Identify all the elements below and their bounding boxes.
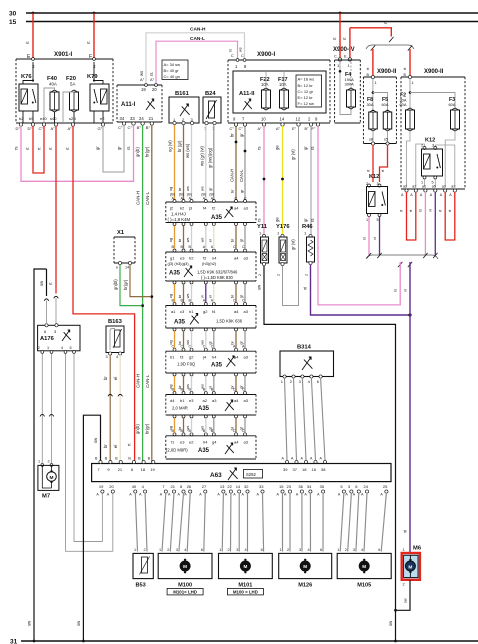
svg-text:e3: e3 [180, 256, 185, 261]
svg-text:a3: a3 [244, 355, 249, 360]
svg-text:ws: ws [200, 238, 204, 243]
svg-text:2: 2 [144, 548, 146, 552]
svg-text:E°: E° [292, 127, 297, 131]
svg-text:CAN-L: CAN-L [145, 374, 150, 388]
svg-text:10A: 10A [279, 82, 287, 87]
svg-text:5A: 5A [70, 82, 75, 87]
svg-text:A= 34 sw: A= 34 sw [164, 62, 181, 67]
svg-text:Y176: Y176 [276, 224, 290, 230]
svg-text:br: br [103, 376, 108, 380]
svg-text:a4: a4 [234, 256, 239, 261]
svg-text:19: 19 [150, 467, 155, 472]
svg-text:M100: M100 [178, 582, 192, 588]
svg-text:21: 21 [149, 116, 154, 121]
svg-text:X1: X1 [117, 230, 125, 236]
svg-text:2,0 M4R: 2,0 M4R [172, 406, 188, 411]
svg-text:1,5D K9K 632/6/7/846: 1,5D K9K 632/6/7/846 [197, 270, 238, 275]
svg-text:CAN-H: CAN-H [136, 191, 141, 205]
svg-text:A°: A° [51, 126, 56, 131]
svg-text:A35: A35 [174, 320, 186, 326]
svg-text:CAN-H: CAN-H [230, 169, 235, 182]
svg-text:34: 34 [120, 116, 125, 121]
svg-text:e40: e40 [40, 116, 47, 121]
svg-text:C= 40 gn: C= 40 gn [164, 74, 180, 79]
svg-text:18: 18 [302, 467, 307, 472]
svg-text:4: 4 [61, 346, 63, 350]
svg-text:b2: b2 [19, 116, 24, 121]
svg-text:35: 35 [320, 484, 325, 489]
svg-text:CAN-L: CAN-L [239, 169, 244, 182]
svg-text:G°: G° [98, 126, 103, 131]
svg-text:32: 32 [244, 484, 249, 489]
svg-text:C: C [242, 299, 245, 303]
svg-text:a3: a3 [244, 440, 249, 445]
svg-text:rs: rs [310, 219, 315, 223]
svg-text:40A: 40A [49, 82, 57, 87]
svg-text:D°: D° [28, 126, 33, 131]
svg-text:B53: B53 [136, 583, 146, 589]
svg-text:el: el [208, 239, 212, 242]
svg-text:C°: C° [230, 127, 235, 131]
svg-text:br: br [103, 444, 108, 448]
svg-text:2: 2 [305, 274, 309, 276]
svg-text:e: e [116, 266, 118, 270]
svg-text:rs: rs [126, 147, 131, 151]
svg-text:2: 2 [167, 548, 169, 552]
svg-text:M: M [303, 564, 307, 569]
svg-text:K76: K76 [21, 74, 32, 80]
svg-text:CAN-L: CAN-L [190, 36, 205, 42]
svg-text:C°: C° [128, 125, 133, 130]
svg-text:el: el [113, 445, 118, 448]
svg-text:B314: B314 [297, 345, 312, 351]
svg-text:M: M [243, 564, 247, 569]
svg-text:2: 2 [258, 274, 262, 276]
svg-text:C°: C° [239, 127, 244, 131]
svg-text:30A: 30A [367, 102, 374, 107]
svg-text:ws: ws [200, 340, 204, 345]
svg-text:h2: h2 [189, 256, 194, 261]
svg-text:3: 3 [236, 548, 238, 552]
svg-text:b5: b5 [29, 116, 34, 121]
svg-text:M: M [362, 564, 366, 569]
svg-text:1: 1 [403, 548, 405, 552]
svg-text:B24: B24 [205, 91, 216, 97]
svg-text:gn(b): gn(b) [135, 147, 140, 157]
svg-text:g2: g2 [203, 309, 208, 314]
svg-text:rs: rs [394, 289, 398, 292]
svg-text:B= 12 br: B= 12 br [298, 83, 314, 88]
svg-text:2: 2 [345, 548, 347, 552]
svg-text:60A: 60A [400, 102, 407, 107]
svg-text:og: og [169, 340, 173, 344]
svg-text:h1: h1 [189, 309, 194, 314]
svg-text:s5: s5 [384, 138, 388, 142]
svg-text:ws: ws [186, 294, 190, 299]
svg-text:M7: M7 [42, 494, 50, 500]
svg-text:M: M [183, 564, 187, 569]
svg-text:3: 3 [176, 548, 178, 552]
svg-text:3: 3 [432, 144, 434, 148]
svg-text:2: 2 [403, 583, 405, 587]
svg-text:A°: A° [258, 127, 263, 131]
svg-text:sw: sw [404, 598, 408, 603]
svg-text:18: 18 [141, 467, 146, 472]
svg-text:ws: ws [186, 426, 190, 431]
svg-text:ws: ws [139, 71, 144, 76]
svg-text:X900-II: X900-II [377, 69, 397, 75]
svg-text:(j3) (h3)(g3): (j3) (h3)(g3) [168, 261, 190, 266]
svg-text:10A: 10A [261, 82, 269, 87]
svg-text:C°: C° [118, 125, 123, 130]
svg-text:a3: a3 [212, 398, 217, 403]
svg-text:rs: rs [149, 73, 154, 77]
svg-text:6: 6 [320, 548, 322, 552]
svg-text:16: 16 [312, 467, 317, 472]
svg-text:K79: K79 [87, 74, 98, 80]
svg-text:M100 = LHD: M100 = LHD [233, 590, 258, 595]
svg-text:21: 21 [118, 467, 123, 472]
svg-text:31: 31 [10, 639, 18, 644]
svg-text:6: 6 [378, 548, 380, 552]
svg-text:20: 20 [152, 87, 157, 92]
svg-text:5: 5 [70, 346, 72, 350]
svg-text:a3: a3 [451, 185, 455, 189]
svg-text:g2: g2 [189, 355, 194, 360]
svg-text:23: 23 [287, 484, 292, 489]
svg-text:a3: a3 [442, 185, 446, 189]
svg-text:rs: rs [363, 237, 367, 240]
svg-text:39: 39 [283, 467, 288, 472]
svg-text:ws: ws [186, 340, 190, 345]
svg-text:X900-II: X900-II [424, 69, 444, 75]
svg-text:14: 14 [236, 484, 241, 489]
svg-text:A35: A35 [211, 363, 223, 369]
svg-text:K12: K12 [369, 174, 379, 180]
svg-text:A35: A35 [169, 271, 181, 277]
svg-text:26: 26 [187, 484, 192, 489]
svg-text:ge: ge [275, 145, 280, 150]
svg-text:2: 2 [277, 274, 281, 276]
svg-text:s2D: s2D [69, 116, 76, 121]
svg-text:S292: S292 [246, 472, 256, 477]
svg-text:e2: e2 [100, 116, 105, 121]
svg-text:vi: vi [403, 530, 408, 533]
svg-text:X900-IV: X900-IV [333, 47, 355, 53]
svg-text:1: 1 [337, 548, 339, 552]
svg-text:a4: a4 [234, 309, 239, 314]
svg-text:M101: M101 [238, 582, 252, 588]
svg-text:A°: A° [150, 77, 155, 82]
svg-text:h4: h4 [203, 440, 208, 445]
svg-text:22: 22 [227, 484, 232, 489]
svg-text:og: og [169, 187, 173, 191]
svg-text:2: 2 [32, 64, 35, 69]
svg-text:15: 15 [9, 19, 17, 26]
svg-text:a4: a4 [234, 440, 239, 445]
svg-text:A176: A176 [40, 336, 55, 342]
svg-text:M: M [408, 564, 412, 570]
svg-text:A°: A° [140, 77, 145, 82]
svg-text:rs: rs [14, 147, 19, 151]
svg-text:gr: gr [303, 218, 308, 222]
svg-text:27: 27 [202, 484, 207, 489]
svg-text:gr (ws)(og): gr (ws)(og) [208, 147, 213, 168]
svg-text:ge: ge [275, 217, 280, 222]
svg-text:B°: B° [137, 125, 142, 130]
svg-text:E= 12 br: E= 12 br [298, 95, 314, 100]
svg-text:C: C [233, 245, 236, 249]
svg-text:3: 3 [299, 548, 301, 552]
svg-text:(h3)(h2): (h3)(h2) [202, 261, 217, 266]
svg-text:33: 33 [130, 116, 135, 121]
svg-text:4: 4 [245, 548, 247, 552]
svg-text:gr: gr [303, 146, 308, 150]
svg-text:b1: b1 [170, 355, 175, 360]
svg-text:X900-I: X900-I [257, 51, 276, 58]
svg-text:gn(b): gn(b) [135, 424, 140, 434]
svg-text:X901-I: X901-I [54, 51, 73, 58]
svg-text:a3: a3 [244, 309, 249, 314]
svg-text:e3: e3 [180, 440, 185, 445]
svg-text:M6: M6 [413, 546, 422, 552]
svg-text:vi: vi [429, 209, 433, 212]
svg-text:br(gr): br(gr) [123, 279, 128, 290]
svg-text:n4: n4 [212, 256, 217, 261]
svg-text:60A: 60A [449, 102, 456, 107]
svg-text:1: 1 [47, 346, 49, 350]
svg-text:5: 5 [377, 218, 379, 222]
svg-text:300A: 300A [345, 82, 355, 87]
svg-text:B= 40 gr: B= 40 gr [164, 68, 180, 73]
svg-text:12: 12 [296, 117, 301, 122]
svg-text:1,4 H4J: 1,4 H4J [171, 212, 186, 217]
svg-text:C: C [231, 54, 234, 58]
svg-text:ws: ws [200, 384, 204, 389]
svg-text:CAN-L: CAN-L [145, 191, 150, 205]
svg-text:a1: a1 [171, 309, 176, 314]
svg-text:ws: ws [186, 186, 190, 191]
svg-text:B°: B° [146, 125, 151, 130]
svg-text:a3: a3 [244, 256, 249, 261]
svg-text:b1: b1 [180, 398, 185, 403]
svg-text:ws (ws): ws (ws) [185, 143, 190, 158]
svg-text:A11-II: A11-II [239, 91, 255, 97]
svg-text:vi: vi [200, 295, 204, 298]
svg-text:R46: R46 [302, 224, 313, 230]
svg-text:19: 19 [99, 484, 104, 489]
svg-text:gr (vi): gr (vi) [291, 239, 296, 250]
svg-text:A35: A35 [198, 406, 210, 412]
svg-text:a2: a2 [403, 185, 407, 189]
svg-text:15: 15 [279, 484, 284, 489]
svg-text:1: 1 [219, 548, 221, 552]
svg-text:s40: s40 [50, 116, 57, 121]
svg-text:60A: 60A [382, 102, 389, 107]
svg-text:ws: ws [200, 186, 204, 191]
svg-text:6: 6 [201, 548, 203, 552]
svg-text:1: 1 [280, 548, 282, 552]
svg-text:1: 1 [159, 548, 161, 552]
svg-text:rs: rs [257, 147, 262, 151]
svg-text:M105: M105 [357, 582, 371, 588]
svg-text:24: 24 [364, 484, 369, 489]
svg-text:a4: a4 [234, 398, 239, 403]
svg-text:4: 4 [308, 548, 310, 552]
svg-text:24: 24 [139, 116, 144, 121]
svg-text:a4: a4 [234, 355, 239, 360]
svg-text:a2: a2 [412, 185, 416, 189]
svg-text:ws (gr) (vi): ws (gr) (vi) [200, 146, 205, 166]
svg-text:A63: A63 [210, 472, 222, 479]
svg-text:vi: vi [303, 287, 308, 290]
svg-text:br(gr): br(gr) [145, 146, 150, 157]
svg-text:br(gr): br(gr) [145, 423, 150, 434]
svg-text:38: 38 [321, 467, 326, 472]
svg-text:34: 34 [307, 484, 312, 489]
svg-text:21: 21 [171, 484, 176, 489]
svg-text:el: el [113, 377, 118, 380]
svg-text:a2: a2 [203, 398, 208, 403]
svg-text:2: 2 [38, 346, 40, 350]
svg-text:og: og [169, 238, 173, 242]
svg-text:B163: B163 [108, 319, 123, 325]
svg-text:1: 1 [38, 460, 40, 464]
svg-text:25: 25 [383, 484, 388, 489]
svg-text:13: 13 [220, 484, 225, 489]
svg-text:vi: vi [208, 386, 212, 389]
svg-text:g1: g1 [170, 256, 175, 261]
svg-text:Y11: Y11 [257, 224, 268, 230]
svg-text:A11-I: A11-I [121, 102, 136, 108]
svg-text:1: 1 [366, 218, 368, 222]
svg-text:CAN-H: CAN-H [136, 374, 141, 388]
svg-text:rs: rs [229, 49, 233, 52]
svg-text:a3: a3 [244, 398, 249, 403]
svg-text:( )=1,5D K9K 830: ( )=1,5D K9K 830 [201, 275, 233, 280]
svg-text:14: 14 [125, 266, 129, 270]
svg-text:gr (vi): gr (vi) [291, 149, 296, 160]
svg-text:s8: s8 [369, 138, 373, 142]
svg-text:rs: rs [419, 209, 423, 212]
svg-text:40: 40 [132, 484, 137, 489]
svg-text:E,: E, [344, 55, 348, 59]
svg-text:2: 2 [287, 548, 289, 552]
svg-text:33: 33 [259, 484, 264, 489]
svg-text:A35: A35 [198, 448, 210, 454]
svg-text:C°: C° [39, 126, 44, 131]
svg-text:3: 3 [353, 548, 355, 552]
svg-text:g4: g4 [212, 440, 217, 445]
svg-text:1,5D K9K 636: 1,5D K9K 636 [216, 319, 243, 324]
svg-text:og: og [169, 385, 173, 389]
svg-text:gn(bl): gn(bl) [113, 279, 118, 290]
svg-text:M101= LHD: M101= LHD [173, 590, 197, 595]
svg-text:rs: rs [310, 147, 315, 151]
svg-text:C: C [242, 245, 245, 249]
svg-text:19: 19 [141, 87, 146, 92]
svg-text:10: 10 [261, 117, 266, 122]
svg-text:a5: a5 [432, 185, 436, 189]
svg-text:h4: h4 [212, 355, 217, 360]
svg-text:( )=1,8 K4M: ( )=1,8 K4M [168, 217, 191, 222]
svg-text:3: 3 [106, 355, 108, 359]
svg-text:gr: gr [239, 133, 244, 137]
svg-text:2: 2 [228, 548, 230, 552]
svg-text:ws: ws [239, 47, 243, 52]
svg-text:20: 20 [109, 484, 114, 489]
svg-text:C= 12 gr: C= 12 gr [298, 89, 314, 94]
svg-text:d4: d4 [170, 398, 175, 403]
svg-text:2: 2 [48, 460, 50, 464]
svg-text:C: C [233, 299, 236, 303]
svg-text:30: 30 [9, 11, 17, 18]
svg-text:a1: a1 [422, 185, 426, 189]
svg-text:e2: e2 [189, 440, 194, 445]
svg-text:el: el [208, 295, 212, 298]
svg-text:4: 4 [361, 548, 363, 552]
svg-text:14: 14 [280, 117, 285, 122]
svg-text:og: og [169, 426, 173, 430]
svg-text:A35: A35 [211, 215, 223, 221]
svg-text:gr: gr [95, 146, 100, 150]
svg-text:M: M [50, 475, 54, 481]
svg-text:6: 6 [261, 548, 263, 552]
svg-text:a4: a4 [234, 206, 239, 211]
svg-text:2: 2 [421, 144, 423, 148]
svg-text:36: 36 [298, 484, 303, 489]
svg-text:C: C [241, 54, 244, 58]
svg-text:M126: M126 [298, 582, 312, 588]
svg-text:ws: ws [186, 238, 190, 243]
svg-text:C,: C, [334, 55, 338, 59]
svg-text:a3: a3 [244, 206, 249, 211]
svg-text:(2,0D M9R): (2,0D M9R) [166, 448, 188, 453]
svg-text:e3: e3 [189, 398, 194, 403]
svg-text:D°: D° [16, 126, 21, 131]
svg-text:2: 2 [93, 64, 96, 69]
svg-text:1: 1 [134, 548, 136, 552]
svg-text:vi: vi [373, 237, 377, 240]
svg-text:og: og [169, 294, 173, 298]
svg-text:A= 16 ws: A= 16 ws [298, 77, 315, 82]
svg-text:A°: A° [276, 127, 281, 131]
svg-text:B°: B° [305, 127, 310, 131]
svg-text:gr: gr [117, 146, 122, 150]
svg-text:37: 37 [293, 467, 298, 472]
svg-text:ws: ws [186, 384, 190, 389]
svg-text:rs: rs [257, 219, 262, 223]
svg-text:B161: B161 [175, 91, 190, 97]
svg-text:4: 4 [116, 355, 118, 359]
svg-text:F= 12 sw: F= 12 sw [298, 101, 314, 106]
svg-text:og (vi): og (vi) [168, 140, 173, 152]
svg-text:A°: A° [68, 126, 73, 131]
svg-text:F°: F° [312, 127, 316, 131]
svg-text:vi: vi [404, 289, 408, 292]
svg-text:CAN-H: CAN-H [190, 27, 206, 33]
svg-text:br (gr): br (gr) [177, 140, 182, 152]
svg-text:br: br [230, 133, 235, 137]
svg-text:ws: ws [200, 426, 204, 431]
svg-text:4: 4 [184, 548, 186, 552]
svg-text:1,9D F9Q: 1,9D F9Q [177, 362, 196, 367]
